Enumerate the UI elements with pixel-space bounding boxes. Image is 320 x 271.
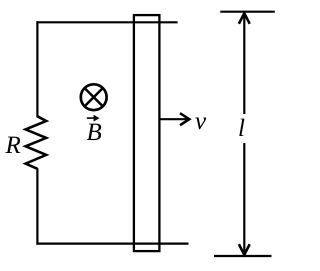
resistor R [26, 116, 47, 169]
dimension cap bottom [214, 255, 272, 257]
field symbol B into page (circle with X) [81, 84, 107, 110]
svg-text:R: R [5, 132, 21, 159]
dimension cap top [220, 11, 274, 13]
wire bottom rail [36, 243, 188, 245]
svg-text:v: v [195, 108, 207, 135]
wire left vertical bottom segment [36, 168, 38, 244]
velocity arrow v [161, 113, 190, 125]
svg-text:l: l [238, 115, 245, 142]
vector arrow over B [87, 115, 100, 122]
svg-text:B: B [87, 119, 102, 146]
dimension line l upper segment with up arrow [239, 13, 250, 114]
wire left vertical top segment [36, 21, 38, 117]
conducting rod (sliding bar) [134, 15, 160, 251]
wire top rail [36, 21, 177, 23]
dimension line l lower segment with down arrow [239, 143, 250, 255]
